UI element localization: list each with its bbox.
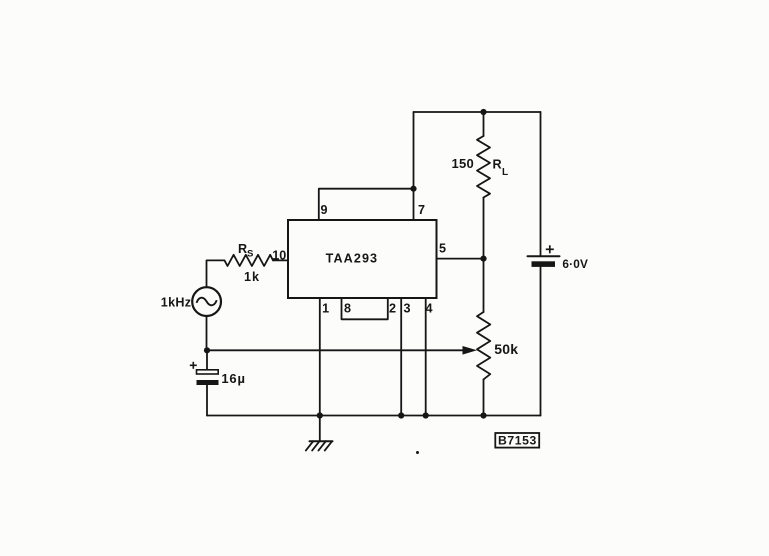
svg-text:TAA293: TAA293 bbox=[326, 252, 379, 266]
svg-text:8: 8 bbox=[344, 302, 351, 316]
svg-text:2: 2 bbox=[389, 302, 396, 316]
svg-text:3: 3 bbox=[404, 302, 411, 316]
svg-text:150: 150 bbox=[452, 156, 475, 171]
svg-text:9: 9 bbox=[321, 203, 328, 217]
svg-text:16µ: 16µ bbox=[221, 371, 245, 386]
svg-text:10: 10 bbox=[272, 248, 286, 262]
svg-text:L: L bbox=[502, 167, 508, 178]
svg-text:7: 7 bbox=[418, 203, 425, 217]
svg-text:50k: 50k bbox=[494, 341, 518, 357]
svg-text:1kHz: 1kHz bbox=[161, 295, 192, 309]
svg-text:S: S bbox=[247, 249, 253, 260]
svg-text:4: 4 bbox=[426, 302, 433, 316]
svg-text:5: 5 bbox=[439, 242, 446, 256]
svg-text:B7153: B7153 bbox=[498, 434, 537, 448]
svg-text:R: R bbox=[493, 158, 502, 172]
svg-text:1: 1 bbox=[322, 302, 329, 316]
svg-text:1k: 1k bbox=[244, 270, 260, 284]
svg-text:R: R bbox=[238, 242, 247, 256]
svg-text:6·0V: 6·0V bbox=[562, 257, 588, 271]
